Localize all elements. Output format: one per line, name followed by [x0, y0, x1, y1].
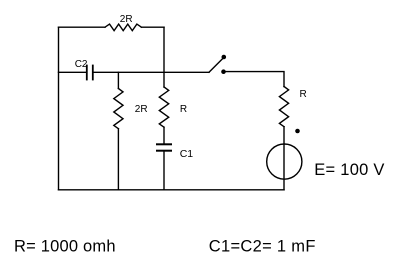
wire: right rail from switch to top-right corner and down — [226, 72, 284, 87]
svg-text:C2: C2 — [75, 59, 88, 70]
wire: top-left horizontal segment — [59, 26, 106, 28]
resistor 2R (top horizontal) — [105, 24, 141, 31]
svg-text:E= 100 V: E= 100 V — [314, 161, 384, 179]
capacitor C2 left plate — [86, 66, 88, 80]
svg-text:R: R — [300, 89, 307, 100]
node dot right of resistor R — [295, 129, 300, 134]
wire: top-right horizontal segment — [141, 26, 164, 28]
svg-text:2R: 2R — [120, 14, 133, 25]
switch upper contact dot — [222, 55, 227, 60]
wire: right rail through voltage source to bottom — [283, 127, 285, 190]
wire: middle rail left segment to capacitor C2 — [59, 71, 87, 73]
svg-text:R= 1000 omh: R= 1000 omh — [14, 238, 116, 256]
wire: bottom rail — [59, 189, 285, 191]
resistor R (right vertical) — [279, 87, 288, 127]
switch lower contact dot — [221, 69, 226, 74]
capacitor C1 bottom plate — [157, 150, 171, 152]
wire: branch down from middle rail to resistor 2R — [117, 72, 119, 88]
wire: top loop right vertical down to middle rail and resistor R — [163, 27, 165, 87]
capacitor C2 right plate — [92, 66, 94, 80]
wire: middle rail from C2 to switch — [94, 71, 209, 73]
wire: from capacitor C1 down to bottom rail — [163, 152, 165, 190]
capacitor C1 top plate — [157, 143, 171, 145]
svg-text:C1=C2= 1 mF: C1=C2= 1 mF — [209, 238, 316, 256]
svg-text:R: R — [180, 104, 187, 115]
resistor R (middle vertical) — [159, 87, 168, 127]
svg-text:2R: 2R — [135, 104, 148, 115]
voltage source E circle — [267, 144, 302, 179]
svg-text:C1: C1 — [180, 148, 194, 160]
wire: left vertical rail — [58, 27, 60, 190]
wire: from resistor R down to capacitor C1 — [163, 127, 165, 143]
switch blade — [209, 59, 222, 72]
wire: from resistor 2R down to bottom rail — [117, 129, 119, 190]
resistor 2R (left vertical) — [114, 89, 123, 129]
